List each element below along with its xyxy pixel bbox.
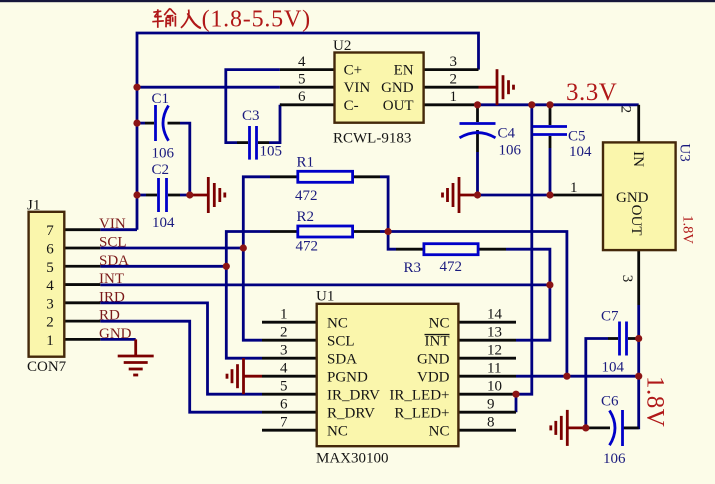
svg-text:IR_DRV: IR_DRV [327,387,380,403]
node: 1.8V at C7 [635,335,642,342]
wire: R2 right stub [380,230,388,233]
svg-text:104: 104 [569,144,592,160]
svg-text:3: 3 [619,275,635,283]
svg-text:R_DRV: R_DRV [327,405,375,421]
svg-text:INT: INT [425,333,450,349]
capacitor C2 [146,178,180,212]
node: 3.3V at C4 [474,101,481,108]
U1 left pin numbers [280,307,288,431]
svg-text:3.3V: 3.3V [566,79,617,106]
connector J1 body [29,212,65,357]
svg-text:GND: GND [616,190,649,206]
svg-text:C2: C2 [152,162,170,178]
svg-text:U3: U3 [677,143,693,161]
svg-text:NC: NC [429,423,450,439]
svg-text:1: 1 [280,307,288,323]
U1 pin leads 1..14 [262,322,516,430]
ground at U1 PGND pin4 [227,358,262,394]
svg-text:2: 2 [450,72,458,88]
node: VIN junction at C1 top [133,84,140,91]
capacitor C4 (polarized) [460,105,496,152]
capacitor C7 [608,322,639,356]
wire: R1 left down to SCL then U1 pin2 [243,177,270,340]
wire: J1 GND net [100,338,135,341]
node: 3.3V at LED branch [528,101,535,108]
svg-text:472: 472 [296,239,319,255]
svg-text:RCWL-9183: RCWL-9183 [333,131,411,147]
svg-text:1.8V: 1.8V [642,376,669,427]
svg-text:4: 4 [280,361,288,377]
ground at 3.3V filter row [443,177,478,213]
J1 pin leads 7..1 [64,230,100,340]
svg-text:R3: R3 [404,260,422,276]
wire: C4 bottom to ground row to U3 GND pin1 [478,152,549,195]
svg-text:J1: J1 [27,198,40,214]
svg-text:1: 1 [450,89,458,105]
capacitor C1 (polarized) [145,105,180,141]
svg-text:3: 3 [450,54,458,70]
wire: J1 RD net to U1 R_DRV pin6 [100,321,262,412]
node: IR_LED junction [512,391,519,398]
wire: C2 left lead stub [137,194,146,197]
svg-text:5: 5 [280,379,288,395]
svg-text:14: 14 [487,307,503,323]
wire: 3.3V rail from U2 OUT to U3 IN [479,103,639,106]
capacitor C5 [533,105,567,148]
svg-text:9: 9 [487,397,495,413]
wire: J1 VIN net [100,228,137,231]
svg-text:13: 13 [487,325,502,341]
svg-text:VIN: VIN [99,216,126,232]
wire: C5 bottom to ground row [549,148,552,195]
U1 right pin names [389,315,449,439]
node: INT junction [546,281,553,288]
node: SDA pull-up [223,263,230,270]
svg-text:GND: GND [99,326,132,342]
wire: C1 left lead stub [137,122,145,125]
svg-text:SDA: SDA [327,351,357,367]
svg-text:105: 105 [260,144,283,160]
svg-text:C-: C- [344,98,359,114]
svg-text:1: 1 [46,333,54,349]
U2 pin names [344,63,414,114]
svg-text:C6: C6 [601,394,619,410]
svg-text:NC: NC [327,315,348,331]
wire: C3 right to U2 C- pin6 [269,105,280,143]
svg-text:C1: C1 [152,91,170,107]
svg-text:C3: C3 [242,108,260,124]
capacitor C6 (polarized) [586,410,639,446]
svg-text:11: 11 [487,361,501,377]
label input voltage annotation 输入(1.8-5.5V) [152,8,201,28]
node: C2 right junction [186,191,193,198]
node: VDD junction [563,373,570,380]
resistor R1 [270,171,380,182]
node: gnd row at C4 [474,191,481,198]
J1 pin numbers [46,223,54,349]
svg-text:IR_LED+: IR_LED+ [389,387,449,403]
node: pull-up rail [385,228,392,235]
svg-text:VDD: VDD [417,369,450,385]
svg-text:472: 472 [295,188,318,204]
svg-text:INT: INT [99,271,124,287]
svg-text:VIN: VIN [344,80,371,96]
svg-text:C4: C4 [498,126,516,142]
wire: J1 SCL net to R1/U1 pin2 [100,247,243,250]
svg-text:472: 472 [440,259,463,275]
svg-text:SCL: SCL [327,333,355,349]
wire: U2 C+ pin4 to C3 left [226,70,280,143]
resistor R3 [396,244,506,255]
svg-text:1: 1 [570,180,578,196]
svg-text:RD: RD [99,308,120,324]
wire: pull-up rail to VDD node [388,232,567,377]
svg-text:R_LED+: R_LED+ [394,405,449,421]
svg-text:GND: GND [417,351,450,367]
svg-text:104: 104 [152,215,175,231]
ground at U2 GND pin2 [479,69,514,105]
node: SCL pull-up [240,244,247,251]
regulator U2 body [335,53,424,123]
svg-text:R1: R1 [297,155,315,171]
svg-text:106: 106 [603,451,626,467]
svg-text:NC: NC [429,315,450,331]
wire: 3.3V drop to IR_LED+/R_LED+ pins [516,105,532,412]
node: 1.8V at VDD row [635,373,642,380]
svg-text:2: 2 [618,106,634,114]
wire: R2 left down to SDA then U1 pin3 [226,232,270,359]
svg-text:IRD: IRD [99,289,125,305]
wire: R3 right to INT junction down to U1 pin13 [506,249,550,340]
svg-text:CON7: CON7 [27,359,67,375]
svg-text:10: 10 [487,379,502,395]
wire: R1 right to pull-up node [380,177,396,249]
svg-text:U2: U2 [333,38,351,54]
svg-text:3: 3 [280,343,288,359]
wire: J1 INT net across to INT junction [100,283,550,286]
svg-text:SCL: SCL [99,234,127,250]
svg-text:C7: C7 [601,309,619,325]
svg-text:C5: C5 [568,129,586,145]
node: C6 gnd junction [582,424,589,431]
ground at C6 node [551,410,586,446]
wire: VIN rail to U2 pin5 [137,86,280,89]
wire: C7 left lead down to ground junction [586,339,608,428]
resistor R2 [270,226,380,237]
svg-text:5: 5 [298,72,306,88]
svg-text:106: 106 [152,146,175,162]
node: gnd row at C5 [546,191,553,198]
wire: J1 SDA net to R2/U1 pin3 [100,265,226,268]
U1 right pin numbers [487,307,503,431]
regulator U3 body [603,142,676,250]
capacitor C3 [237,126,269,160]
node: 3.3V at C5 [546,101,553,108]
svg-text:5: 5 [46,260,54,276]
svg-text:OUT: OUT [628,205,644,236]
svg-text:6: 6 [280,397,288,413]
svg-text:7: 7 [280,415,288,431]
svg-text:U1: U1 [316,288,334,304]
earth ground below J1 GND [118,339,154,375]
U1 INT overline [425,334,450,336]
svg-text:R2: R2 [297,209,315,225]
U2 pin leads [280,70,479,105]
svg-text:GND: GND [381,80,414,96]
wire: VDD row U1 pin11 to 1.8V column [516,375,639,378]
U3 pin leads [548,105,639,305]
svg-text:C+: C+ [344,63,362,79]
node: C2 left junction [133,191,140,198]
svg-text:2: 2 [280,325,288,341]
top window border line [0,0,715,2]
svg-text:(1.8-5.5V): (1.8-5.5V) [202,6,311,32]
svg-text:IN: IN [630,151,646,167]
svg-text:SDA: SDA [99,253,129,269]
svg-text:2: 2 [46,315,54,331]
wire: input top rail from J1 VIN column to U2 EN [137,33,479,230]
svg-text:3: 3 [46,296,54,312]
svg-text:104: 104 [602,360,625,376]
svg-text:106: 106 [499,143,522,159]
svg-text:7: 7 [46,223,54,239]
svg-text:6: 6 [298,89,306,105]
IC U1 MAX30100 body [317,304,459,446]
svg-text:MAX30100: MAX30100 [316,451,389,467]
wire: J1 IRD net to U1 IR_DRV pin5 [100,303,262,394]
ground at C2 node [190,177,225,213]
svg-text:6: 6 [46,241,54,257]
svg-text:EN: EN [394,63,414,79]
node: C1 top junction [133,120,140,127]
svg-text:NC: NC [327,423,348,439]
U1 left pin names [327,315,380,439]
U2 pin numbers [298,54,457,105]
svg-text:8: 8 [487,415,495,431]
svg-text:4: 4 [46,278,54,294]
svg-text:4: 4 [298,54,306,70]
svg-text:12: 12 [487,343,502,359]
wire: C1 branch vertical [180,123,190,195]
svg-text:1.8V: 1.8V [679,215,695,244]
svg-text:OUT: OUT [383,98,414,114]
svg-text:PGND: PGND [327,369,368,385]
wire: 1.8V column from U3 OUT to C6 [624,305,639,428]
